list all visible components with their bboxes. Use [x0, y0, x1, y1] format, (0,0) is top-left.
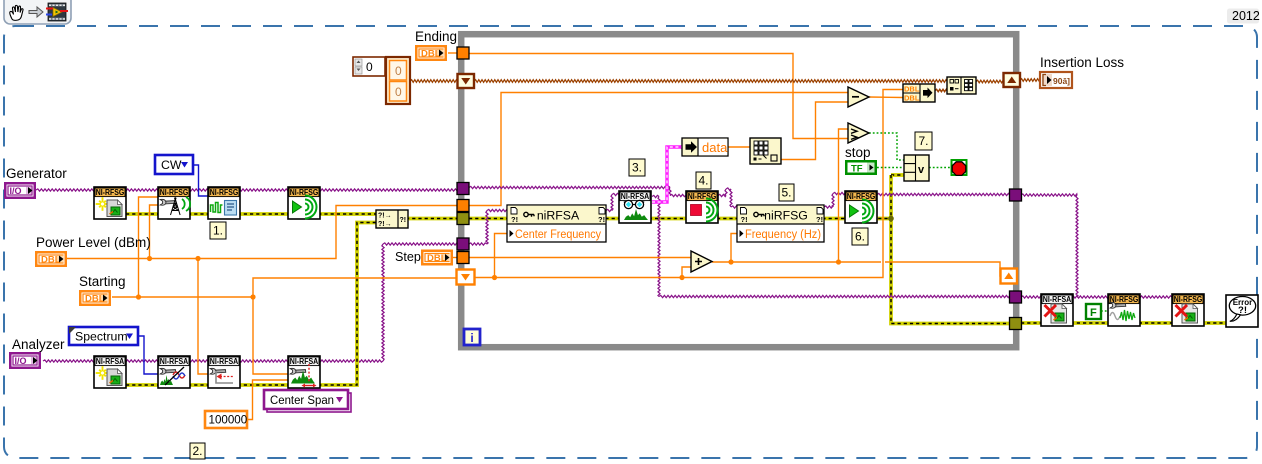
svg-text:4.: 4.: [698, 174, 708, 188]
wire: generator session (purple) from Generator I/O to loop tunnel: [36, 189, 459, 191]
wire: Index Array output (measured power) to Subtract: [781, 102, 848, 160]
shift register left (frequency, orange): [457, 270, 475, 285]
svg-text:2012: 2012: [1232, 9, 1260, 23]
svg-text:5.: 5.: [781, 186, 791, 200]
wire: data to Index Array: [728, 146, 750, 148]
svg-text:CW: CW: [161, 158, 182, 172]
svg-text:6.: 6.: [855, 230, 865, 244]
label 2.: [190, 443, 205, 459]
svg-text:Spectrum: Spectrum: [75, 329, 128, 343]
label 6.: [852, 228, 868, 245]
VI: Simple Error Handler: [1226, 295, 1258, 327]
shift register right (array, up arrow): [1004, 73, 1021, 87]
VI: niRFSA Close: [1041, 294, 1073, 326]
tunnel: analyzer session input: [457, 238, 469, 250]
wire: generator session inside loop: tunnel to RFSG Abort: [469, 186, 670, 188]
shift register left (array): [458, 74, 475, 88]
svg-text:?!: ?!: [816, 215, 823, 224]
wire: error chain through close VIs to error handler: [1021, 321, 1226, 325]
svg-text:Ending: Ending: [415, 29, 457, 44]
svg-text:NI-RFSG: NI-RFSG: [160, 187, 189, 197]
VI: niRFSG Initialize: [94, 187, 126, 219]
svg-text:?!→: ?!→: [378, 213, 392, 220]
wire: Bundle cluster to Build Array: [935, 89, 947, 91]
wire: analyzer session RFSA Fetch to right tunnel: [652, 195, 659, 197]
tunnel: power level input: [457, 200, 469, 212]
toolbar panel top-left: [4, 0, 71, 24]
VI: niRFSG Abort: [686, 191, 718, 223]
wire: Power Level inside loop to Subtract: [469, 93, 848, 206]
svg-text:NI-RFSA: NI-RFSA: [290, 356, 319, 366]
label 2012 top-right: [1227, 9, 1260, 24]
wire: Subtract output (insertion loss) to Bundle: [869, 96, 903, 99]
svg-text:?!: ?!: [1238, 305, 1247, 316]
wire: analyzer session niRFSA property node to RFSA Fetch: [606, 209, 612, 211]
VI: niRFSA Configure Acquisition: [158, 356, 190, 388]
svg-text:NI-RFSG: NI-RFSG: [96, 187, 125, 197]
svg-text:0: 0: [395, 85, 402, 99]
svg-text:NI-RFSA: NI-RFSA: [160, 356, 189, 366]
control: Starting DBL: [79, 290, 111, 306]
wire: insertion loss array to indicator: [1020, 79, 1040, 82]
shift register right (frequency, up arrow orange): [1001, 269, 1018, 284]
svg-text:Center Frequency: Center Frequency: [515, 227, 602, 241]
wire: analyzer session (purple) from Analyzer I/O along RFSA chain: [43, 360, 383, 362]
function: Merge Errors: [376, 210, 408, 228]
label 7.: [915, 132, 932, 150]
wire: fetched spectrum to data local variable (pink): [652, 147, 682, 202]
svg-text:Frequency (Hz): Frequency (Hz): [745, 227, 821, 241]
tunnel: error input: [457, 213, 469, 225]
wire: Add output (next frequency) to niRFSG Frequency, greater-equal and right shift register: [712, 262, 1001, 276]
while loop border: [461, 34, 1016, 347]
function: Subtract: [848, 87, 869, 107]
property node niRFSA Center Frequency: [507, 205, 606, 242]
svg-text:NI-RFSA: NI-RFSA: [96, 356, 125, 366]
wire: Starting frequency to RFSG freq / RFSA center freq / loop shift register: [112, 296, 253, 298]
ring constant CW: [155, 155, 193, 174]
wire: analyzer session tunnel to niRFSA property node: [469, 243, 487, 245]
VI: niRFSG Configure RF: [158, 187, 190, 219]
control: Ending DBL: [415, 45, 447, 61]
svg-text:?!→: ?!→: [378, 221, 392, 228]
VI: niRFSA Configure Reference Level: [208, 356, 240, 388]
tunnel: Ending input: [457, 47, 469, 59]
label 5.: [779, 184, 794, 201]
function: Bundle (DBL,DBL): [903, 84, 935, 103]
wire: F constant to RFSG configure output: [1101, 310, 1108, 312]
svg-text:DBL: DBL: [421, 49, 441, 60]
loop stop terminal (red button): [952, 160, 967, 175]
wire: Power Level (dBm) to RFSG/RFSA inputs and loop tunnel: [67, 206, 458, 259]
function: Compound Arithmetic Or: [904, 155, 929, 181]
wire: Or output to loop stop terminal: [929, 167, 951, 169]
array constant [0,0] initial insertion loss: [353, 57, 410, 104]
junction dots on Power Level and Starting wires: [147, 256, 152, 261]
VI: niRFSA Configure Spectrum Frequency: [288, 356, 320, 388]
svg-text:?!: ?!: [598, 215, 605, 224]
svg-text:niRFSG: niRFSG: [764, 209, 808, 223]
wire: Ending value inside loop to greater-equal: [469, 54, 848, 139]
function: Build Array: [947, 77, 976, 94]
svg-text:stop: stop: [845, 145, 871, 160]
VI: niRFSG Initiate: [288, 187, 320, 219]
svg-text:Insertion Loss: Insertion Loss: [1040, 55, 1124, 70]
svg-text:i: i: [470, 331, 473, 345]
label 3.: [629, 159, 645, 176]
tunnel: error output: [1010, 318, 1022, 330]
VI: niRFSG Configure Output Enabled: [1108, 294, 1140, 326]
function: Add (increment frequency): [691, 251, 712, 272]
label 1.: [210, 222, 226, 239]
function: Index Array: [750, 138, 781, 164]
ring constant Center Span: [264, 390, 351, 412]
wire: analyzer error cluster to Merge Errors: [126, 223, 378, 386]
svg-text:data: data: [702, 140, 728, 155]
VI: niRFSG Initiate (in loop): [845, 191, 877, 223]
svg-text:DBL: DBL: [41, 255, 61, 266]
label 4.: [696, 172, 711, 189]
VI: niRFSG Close: [1172, 294, 1204, 326]
control: Generator I/O: [4, 182, 36, 199]
svg-text:NI-RFSA: NI-RFSA: [1043, 294, 1072, 304]
svg-text:NI-RFSA: NI-RFSA: [210, 356, 239, 366]
svg-text:0: 0: [395, 64, 402, 78]
svg-text:7.: 7.: [918, 134, 928, 148]
svg-text:F: F: [1090, 307, 1097, 319]
wire: greater-equal result to Or node (boolean dotted): [869, 133, 904, 160]
boolean constant F: [1086, 304, 1101, 319]
svg-text:0: 0: [366, 60, 373, 74]
svg-text:I/O: I/O: [15, 356, 27, 366]
wire: Step control to loop tunnel: [453, 257, 458, 259]
svg-text:NI-RFSG: NI-RFSG: [210, 187, 239, 197]
wire: generator session out of loop down to close chain: [1021, 194, 1077, 196]
svg-text:Analyzer: Analyzer: [12, 337, 65, 352]
wire: current frequency shift register to Add / property nodes / Bundle: [475, 90, 903, 278]
tunnel: analyzer session output: [1010, 291, 1022, 303]
svg-text:Starting: Starting: [79, 274, 126, 289]
wire: Spectrum ring to RFSA Configure Measurement: [138, 336, 158, 374]
svg-text:I/O: I/O: [10, 186, 22, 196]
svg-text:3.: 3.: [632, 161, 642, 175]
numeric constant 100000: [205, 411, 247, 428]
svg-text:90ā]: 90ā]: [1053, 76, 1070, 86]
VI: niRFSG Configure Generation Mode: [208, 187, 240, 219]
wire: initial array constant to left shift register: [410, 80, 458, 83]
control: Analyzer I/O: [9, 352, 41, 369]
tunnel: generator session output: [1010, 189, 1022, 201]
wire: session chain through close VIs: [1021, 296, 1172, 298]
svg-text:?!: ?!: [400, 217, 407, 224]
svg-text:?!: ?!: [511, 215, 518, 224]
wire: generator session RFSG Abort to niRFSG property node: [718, 194, 726, 196]
wire: insertion-loss array shift register across loop to Build Array: [474, 80, 947, 83]
VI: niRFSA Fetch Spectrum: [619, 191, 651, 223]
wire: Step value to Add node: [469, 257, 691, 259]
svg-text:DBL: DBL: [904, 94, 920, 103]
wire: CW ring to RFSG Configure Generation Mode: [193, 165, 208, 196]
svg-text:niRFSA: niRFSA: [537, 209, 580, 223]
svg-text:Generator: Generator: [6, 166, 67, 181]
wire: Build Array output to right shift register: [976, 80, 1004, 83]
wire crossing gap at frequency line over add output: [881, 255, 885, 270]
svg-text:NI-RFSG: NI-RFSG: [290, 187, 319, 197]
wire: merged error into loop tunnel: [406, 217, 459, 221]
svg-text:NI-RFSG: NI-RFSG: [1174, 294, 1203, 304]
local variable write: data: [682, 138, 728, 156]
svg-text:?!: ?!: [741, 215, 748, 224]
svg-text:DBL: DBL: [904, 85, 920, 94]
VI: niRFSA Initialize: [94, 356, 126, 388]
svg-text:Power Level (dBm): Power Level (dBm): [36, 235, 151, 250]
svg-text:Step: Step: [395, 250, 421, 264]
svg-text:Center Span: Center Span: [270, 393, 334, 407]
control: Power Level DBL: [35, 251, 67, 267]
svg-text:TF: TF: [851, 164, 863, 175]
svg-text:NI-RFSA: NI-RFSA: [621, 191, 650, 201]
wire: 100000 span constant to RFSA Configure Frequency: [247, 380, 288, 420]
wire: generator session niRFSG property node to RFSG Initiate: [824, 206, 833, 208]
wire: error cluster through property node and RFSG VIs: [469, 217, 891, 221]
wire: stop button terminal to Or node: [877, 167, 904, 169]
svg-text:v: v: [918, 164, 925, 176]
ring constant Spectrum: [69, 327, 138, 345]
property node niRFSG Frequency: [737, 205, 824, 242]
tunnel: Step input: [457, 252, 469, 264]
svg-text:DBL: DBL: [85, 294, 105, 305]
function: Greater Or Equal: [848, 123, 869, 143]
svg-text:NI-RFSG: NI-RFSG: [847, 191, 876, 201]
wire: error branch to Or node and loop exit tunnel: [891, 173, 904, 177]
wire: generator session RFSG Initiate to right tunnel: [877, 193, 1011, 195]
wire: Ending control to loop tunnel: [448, 52, 458, 54]
svg-text:100000: 100000: [209, 414, 248, 427]
tunnel: generator session input: [457, 183, 469, 195]
svg-text:2.: 2.: [192, 444, 202, 458]
wire: generator error cluster to Merge Errors: [126, 212, 378, 216]
svg-text:1.: 1.: [213, 224, 223, 238]
svg-text:DBL: DBL: [427, 253, 447, 264]
loop iteration terminal i: [464, 329, 480, 345]
